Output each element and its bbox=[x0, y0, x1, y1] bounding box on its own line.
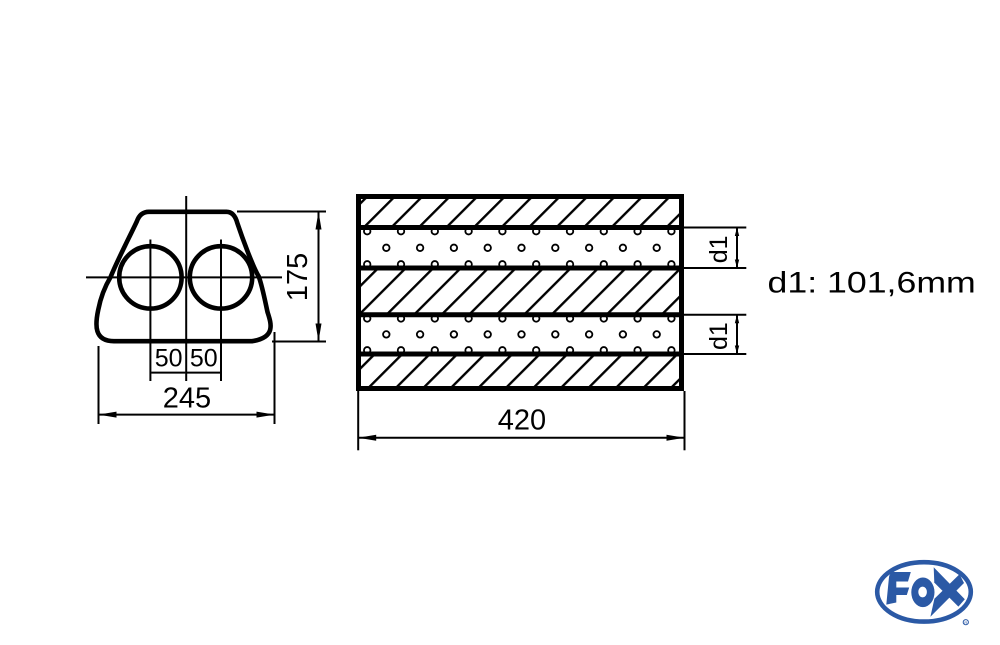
arrow 175 top bbox=[316, 212, 322, 230]
svg-text:245: 245 bbox=[163, 383, 211, 415]
horizontal centerline bbox=[86, 276, 282, 278]
extension line 175 bottom bbox=[272, 341, 326, 343]
arrow 420 left bbox=[358, 435, 376, 441]
arrow 245 right bbox=[257, 412, 275, 418]
dim line 420 bbox=[358, 437, 684, 439]
dim line 50 left bbox=[151, 372, 185, 374]
extension line 175 top bbox=[237, 211, 326, 213]
left pipe vertical centerline bbox=[149, 240, 151, 382]
extension line 420 left bbox=[357, 391, 359, 450]
arrow d1-1 top bbox=[735, 228, 739, 237]
svg-text:50: 50 bbox=[155, 345, 183, 373]
extension line d1-2 bottom bbox=[684, 353, 746, 355]
arrow 245 left bbox=[99, 412, 117, 418]
hatched absorber band bottom bbox=[359, 354, 682, 389]
arrow d1-2 top bbox=[735, 315, 739, 324]
extension line 245 right bbox=[274, 332, 276, 424]
arrow d1-2 bottom bbox=[735, 346, 739, 355]
extension line 420 right bbox=[684, 391, 686, 450]
svg-text:d1: 101,6mm: d1: 101,6mm bbox=[768, 265, 976, 298]
dim line 50 right bbox=[187, 372, 220, 374]
right pipe circle bbox=[190, 246, 252, 308]
extension line d1-1 bottom bbox=[684, 267, 746, 269]
extension line d1-2 top bbox=[684, 314, 746, 316]
separator line 2 bbox=[359, 266, 682, 271]
perforated pipe band top (dots) bbox=[364, 228, 675, 268]
svg-text:50: 50 bbox=[190, 345, 218, 373]
perforated pipe band bottom (dots) bbox=[364, 315, 675, 353]
svg-text:d1: d1 bbox=[705, 235, 733, 263]
dim line 245 bbox=[99, 414, 275, 416]
right pipe vertical centerline bbox=[220, 240, 222, 382]
arrow 420 right bbox=[667, 435, 685, 441]
central vertical centerline bbox=[185, 196, 187, 381]
hatched absorber band top bbox=[359, 197, 682, 228]
left pipe circle bbox=[119, 246, 181, 308]
trapezoid body outline (cross-section) bbox=[96, 212, 270, 341]
svg-text:420: 420 bbox=[498, 405, 546, 437]
dim line d1-2 bbox=[736, 315, 738, 354]
FOX logo letter O bbox=[911, 577, 934, 607]
separator line 3 bbox=[359, 312, 682, 317]
svg-text:d1: d1 bbox=[705, 322, 733, 350]
FOX logo ellipse ring bbox=[877, 562, 971, 621]
separator line 4 bbox=[359, 352, 682, 357]
dim line d1-1 bbox=[736, 228, 738, 269]
muffler body outer rectangle bbox=[359, 197, 682, 389]
arrow 175 bottom bbox=[316, 324, 322, 342]
svg-text:175: 175 bbox=[282, 253, 314, 301]
dim line 175 bbox=[318, 212, 320, 342]
FOX logo registered mark bbox=[963, 620, 968, 625]
separator line 1 bbox=[359, 225, 682, 230]
FOX logo letter F bbox=[886, 572, 911, 605]
svg-text:R: R bbox=[964, 620, 967, 625]
extension line 245 left bbox=[98, 346, 100, 424]
FOX logo letter X bbox=[934, 567, 965, 606]
hatched absorber band middle bbox=[359, 268, 682, 315]
arrow d1-1 bottom bbox=[735, 260, 739, 269]
extension line d1-1 top bbox=[684, 227, 746, 229]
